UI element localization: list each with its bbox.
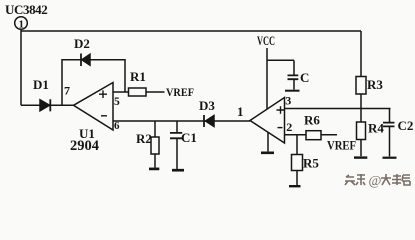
resistor R6 — [306, 131, 321, 140]
wire inverting input line to U2 output — [113, 120, 250, 122]
capacitor C — [285, 60, 300, 90]
svg-text:R5: R5 — [303, 156, 319, 171]
svg-text:2904: 2904 — [70, 138, 99, 154]
svg-text:3: 3 — [285, 94, 291, 108]
wire U2 V- to ground — [267, 132, 269, 151]
resistor R5 — [292, 155, 303, 171]
label UC3842 — [5, 2, 47, 17]
label VREF left — [166, 85, 194, 99]
svg-text:VREF: VREF — [327, 138, 356, 153]
svg-text:D2: D2 — [74, 36, 90, 51]
label U1 value 2904 — [70, 138, 99, 154]
svg-text:C1: C1 — [181, 130, 197, 145]
wire D2 feedback loop — [62, 60, 125, 106]
node 1 terminal — [15, 17, 28, 31]
wire pin3 node — [285, 108, 391, 110]
svg-text:UC3842: UC3842 — [5, 2, 47, 17]
wire right rail — [360, 31, 362, 109]
diode D3 — [204, 115, 214, 127]
svg-text:R2: R2 — [136, 131, 152, 146]
label R1 — [130, 69, 146, 84]
diode D2 — [81, 54, 90, 67]
resistor R4 — [357, 122, 366, 140]
ground R5 — [289, 185, 301, 187]
watermark 头条@大牛君 — [345, 174, 410, 189]
svg-text:C2: C2 — [398, 118, 414, 133]
ground C2 — [383, 157, 397, 159]
label R5 — [303, 156, 319, 171]
label C — [300, 70, 309, 85]
resistor R3 — [356, 77, 366, 95]
ground U2 — [261, 152, 274, 155]
svg-text:R4: R4 — [368, 121, 384, 136]
label VREF right — [327, 138, 356, 153]
label U1 pin 5 — [114, 96, 120, 108]
label C2 — [398, 118, 414, 133]
svg-text:R1: R1 — [130, 69, 146, 84]
capacitor C1 — [170, 121, 182, 169]
label U1 pin 6 — [114, 120, 120, 132]
label D3 — [199, 98, 215, 113]
svg-text:C: C — [300, 70, 309, 85]
wire left rail — [20, 30, 22, 106]
capacitor C2 — [383, 109, 395, 157]
label D1 — [33, 77, 49, 92]
wire R4 — [360, 109, 362, 157]
wire D1 — [21, 104, 74, 106]
svg-text:R3: R3 — [367, 77, 383, 92]
resistor R2 — [151, 121, 159, 168]
resistor R1 — [129, 88, 147, 96]
ground R2 — [149, 168, 159, 171]
op-amp U1 — [74, 83, 114, 131]
label R6 — [304, 113, 320, 128]
svg-text:R6: R6 — [304, 113, 320, 128]
label VCC — [257, 33, 275, 48]
label U2 pin 3 — [285, 94, 291, 108]
wire top rail — [21, 30, 361, 32]
svg-text:2: 2 — [286, 120, 292, 134]
ground C1 — [172, 169, 184, 172]
label U2 pin 2 — [286, 120, 292, 134]
label D2 — [74, 36, 90, 51]
svg-text:6: 6 — [114, 120, 120, 132]
label U2 pin 1 — [237, 104, 244, 119]
wire VCC — [267, 48, 294, 109]
svg-text:1: 1 — [19, 19, 25, 31]
wire R5 — [296, 135, 298, 185]
label U1 — [79, 126, 95, 141]
svg-text:1: 1 — [237, 104, 244, 119]
label R2 — [136, 131, 152, 146]
svg-text:VCC: VCC — [257, 33, 275, 48]
wire pin2 to R6 — [285, 134, 338, 136]
svg-text:5: 5 — [114, 96, 120, 108]
diode D1 — [40, 99, 50, 111]
label C1 — [181, 130, 197, 145]
svg-text:D3: D3 — [199, 98, 215, 113]
op-amp U2 — [250, 98, 285, 144]
svg-text:7: 7 — [64, 84, 70, 98]
svg-text:D1: D1 — [33, 77, 49, 92]
wire noninverting input to R1 — [113, 91, 165, 93]
label U1 pin 7 — [64, 84, 70, 98]
svg-text:VREF: VREF — [166, 85, 194, 99]
ground R4 — [354, 156, 367, 158]
svg-text:@: @ — [369, 174, 382, 189]
label R3 — [367, 77, 383, 92]
label R4 — [368, 121, 384, 136]
